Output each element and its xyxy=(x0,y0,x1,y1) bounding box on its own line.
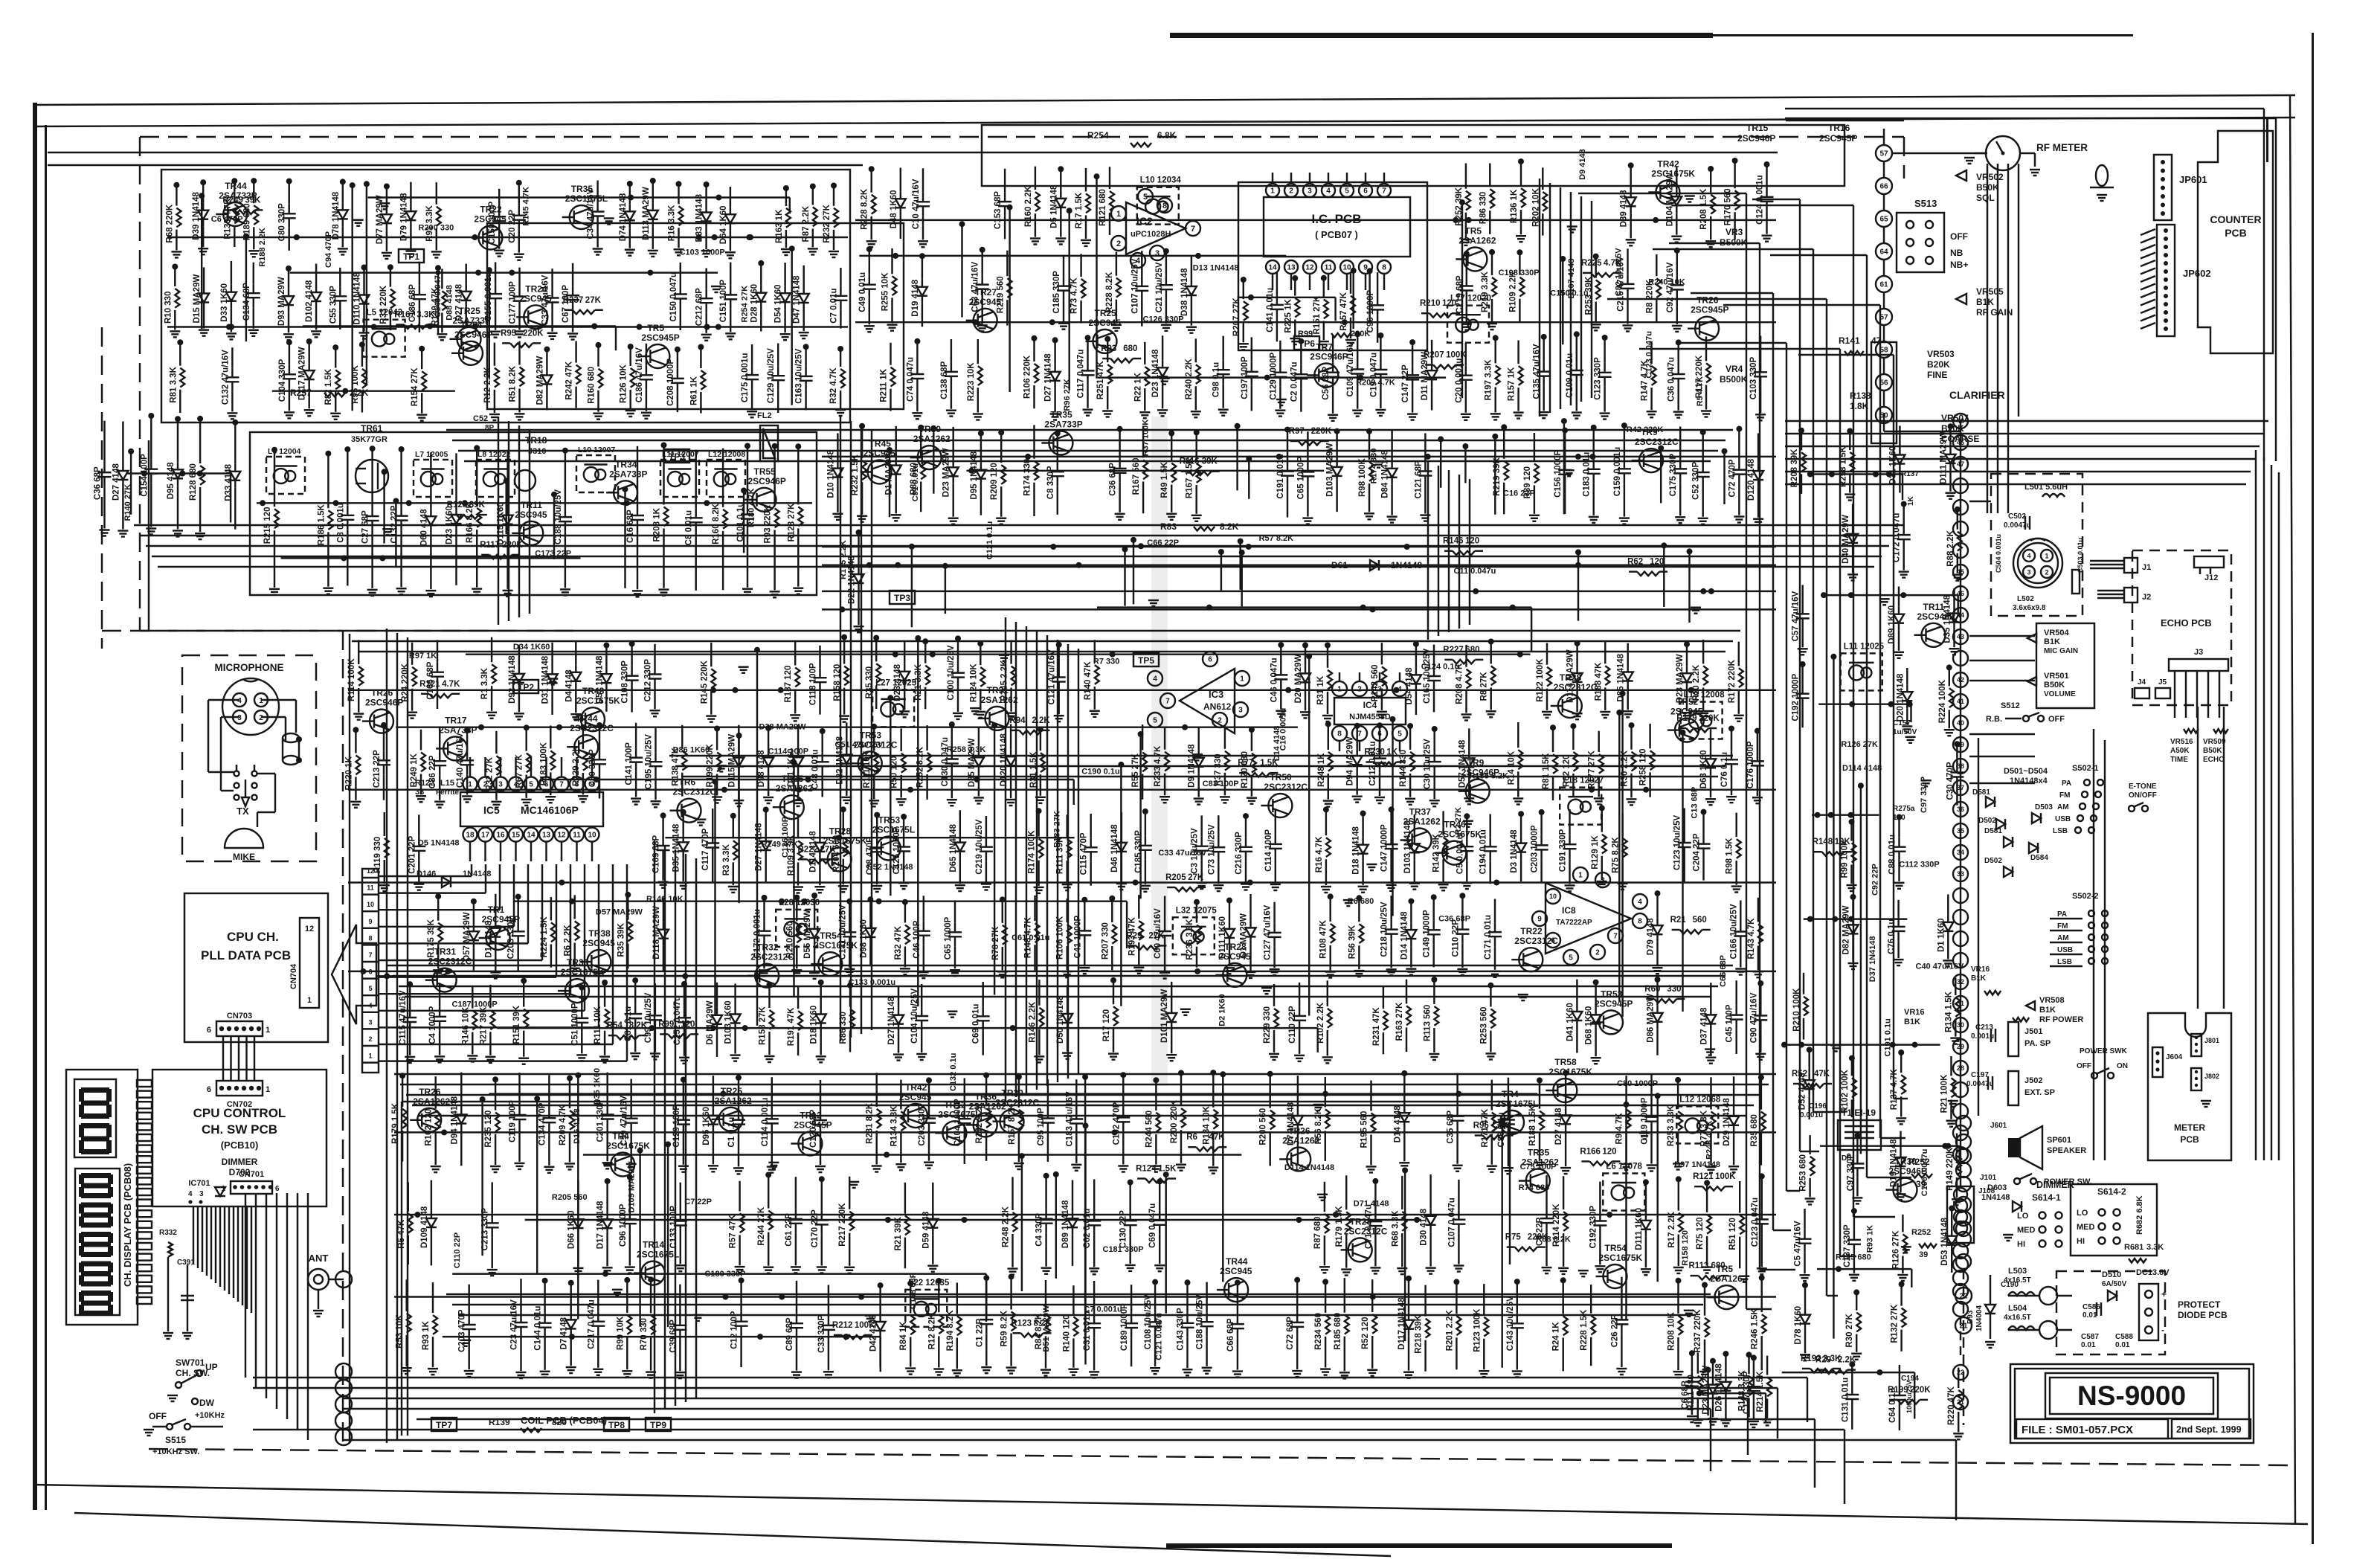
svg-text:D85 1N4148: D85 1N4148 xyxy=(1617,653,1626,701)
svg-text:7: 7 xyxy=(1357,730,1362,739)
svg-text:R17 120: R17 120 xyxy=(1102,1009,1111,1041)
svg-text:2SC945: 2SC945 xyxy=(1089,318,1122,328)
svg-text:VOLUME: VOLUME xyxy=(2044,690,2076,698)
svg-text:C181 330P: C181 330P xyxy=(1103,1245,1144,1254)
svg-text:C195 10u/25V: C195 10u/25V xyxy=(645,734,654,789)
svg-text:TR27: TR27 xyxy=(975,287,997,298)
svg-text:TR54: TR54 xyxy=(1605,1243,1627,1253)
svg-text:C33 330P: C33 330P xyxy=(817,1314,826,1352)
svg-text:8: 8 xyxy=(1638,918,1642,926)
svg-text:B500K: B500K xyxy=(1720,237,1748,248)
svg-text:R17 2.2K: R17 2.2K xyxy=(1667,1211,1676,1247)
svg-text:C72 470P: C72 470P xyxy=(1728,459,1737,497)
svg-text:R126 27K: R126 27K xyxy=(1841,740,1878,749)
svg-text:27K: 27K xyxy=(1188,873,1204,882)
svg-text:D2 1K60: D2 1K60 xyxy=(1218,994,1227,1026)
svg-text:D584: D584 xyxy=(2030,854,2048,862)
svg-text:R179: R179 xyxy=(1676,714,1697,723)
svg-text:R17 1.5K: R17 1.5K xyxy=(1075,192,1084,228)
svg-text:TR15: TR15 xyxy=(1746,123,1769,133)
svg-text:MED: MED xyxy=(2017,1226,2036,1235)
svg-text:R99 10K: R99 10K xyxy=(616,1316,625,1350)
svg-text:CH. DISPLAY PCB (PCB08): CH. DISPLAY PCB (PCB08) xyxy=(122,1163,133,1287)
svg-text:B1K: B1K xyxy=(1976,297,1994,307)
svg-text:C115 47u/16V: C115 47u/16V xyxy=(399,990,408,1045)
svg-text:S614-2: S614-2 xyxy=(2097,1186,2126,1197)
svg-text:C94 470P: C94 470P xyxy=(324,231,333,268)
svg-text:D37 1N4148: D37 1N4148 xyxy=(1868,936,1877,982)
svg-text:R12 8.2K: R12 8.2K xyxy=(927,1313,936,1349)
svg-text:C126 330P: C126 330P xyxy=(1143,315,1184,324)
svg-text:C51 47u/16V: C51 47u/16V xyxy=(835,740,884,749)
svg-text:6.8K: 6.8K xyxy=(1157,130,1177,141)
svg-text:R113 560: R113 560 xyxy=(1423,1005,1432,1041)
svg-text:C134 470P: C134 470P xyxy=(538,1102,547,1145)
svg-text:9: 9 xyxy=(590,781,594,789)
svg-text:MICROPHONE: MICROPHONE xyxy=(214,662,283,673)
svg-text:R50 120: R50 120 xyxy=(890,756,899,788)
svg-text:R93: R93 xyxy=(1101,344,1116,353)
svg-text:3: 3 xyxy=(199,1190,204,1198)
svg-text:C129 100P: C129 100P xyxy=(672,1105,681,1148)
svg-text:2SC946P: 2SC946P xyxy=(748,476,786,486)
svg-text:1N4004: 1N4004 xyxy=(1975,1305,1984,1331)
svg-text:2SC1675K: 2SC1675K xyxy=(1599,1253,1643,1263)
svg-text:C114 100P: C114 100P xyxy=(768,747,808,756)
svg-text:C152 470P: C152 470P xyxy=(1112,1102,1121,1145)
svg-text:R68 3.3K: R68 3.3K xyxy=(1391,1210,1400,1247)
svg-text:D581: D581 xyxy=(1972,788,1990,797)
svg-text:D603: D603 xyxy=(1987,1183,2007,1192)
svg-text:C108 330P: C108 330P xyxy=(621,661,630,704)
svg-text:2SC1675K: 2SC1675K xyxy=(1548,1067,1592,1077)
svg-text:R126 10K: R126 10K xyxy=(620,364,628,403)
svg-text:C133 100P: C133 100P xyxy=(669,1206,678,1249)
svg-text:C82 10u/25V: C82 10u/25V xyxy=(1615,248,1624,296)
svg-text:R207 330: R207 330 xyxy=(1101,922,1110,960)
svg-text:PA: PA xyxy=(2057,910,2067,919)
svg-text:15: 15 xyxy=(512,832,521,840)
svg-text:R106 220K: R106 220K xyxy=(1023,355,1032,399)
svg-text:TA7222AP: TA7222AP xyxy=(1556,919,1592,927)
svg-text:R84 1K: R84 1K xyxy=(899,1321,908,1351)
svg-text:R132 27K: R132 27K xyxy=(1891,1304,1900,1343)
svg-text:8: 8 xyxy=(575,781,579,789)
svg-text:C107 0.047u: C107 0.047u xyxy=(1447,1198,1456,1247)
svg-text:R29: R29 xyxy=(1815,1356,1831,1365)
svg-text:R223 10K: R223 10K xyxy=(967,362,976,401)
svg-text:R113: R113 xyxy=(1689,1262,1709,1270)
svg-text:C185 330P: C185 330P xyxy=(1052,271,1061,314)
svg-text:TP7: TP7 xyxy=(436,1420,452,1430)
svg-text:C8 330P: C8 330P xyxy=(1046,466,1055,499)
svg-text:6A/50V: 6A/50V xyxy=(2102,1280,2127,1288)
svg-text:R143 4.7K: R143 4.7K xyxy=(1747,918,1756,960)
svg-text:D27 4148: D27 4148 xyxy=(112,463,120,501)
svg-text:13: 13 xyxy=(542,832,551,840)
svg-text:C36 68P: C36 68P xyxy=(94,466,103,500)
svg-text:C143 330P: C143 330P xyxy=(1177,1308,1186,1351)
svg-text:8.2K: 8.2K xyxy=(629,1021,648,1030)
svg-text:C61 22P: C61 22P xyxy=(785,1213,794,1247)
svg-text:VR16: VR16 xyxy=(1904,1008,1925,1017)
svg-text:A50K: A50K xyxy=(2170,747,2190,755)
svg-text:USB: USB xyxy=(2055,815,2071,823)
svg-text:220K: 220K xyxy=(1311,427,1332,436)
svg-text:R134 1.5K: R134 1.5K xyxy=(1944,991,1953,1032)
svg-text:2SC2312C: 2SC2312C xyxy=(1264,782,1308,792)
svg-text:R75 8.2K: R75 8.2K xyxy=(1612,837,1621,873)
svg-text:8.2K: 8.2K xyxy=(1220,521,1239,532)
svg-text:C129 10u/25V: C129 10u/25V xyxy=(767,348,776,403)
svg-text:R255 10K: R255 10K xyxy=(881,272,890,311)
svg-text:C2 0.047u: C2 0.047u xyxy=(1290,361,1299,402)
svg-text:D57 MA29W: D57 MA29W xyxy=(596,908,643,917)
svg-text:7: 7 xyxy=(1191,225,1195,234)
svg-text:R240 10K: R240 10K xyxy=(1648,277,1685,286)
svg-text:2.2K: 2.2K xyxy=(1838,1356,1856,1365)
svg-text:EXT. SP: EXT. SP xyxy=(2024,1088,2055,1097)
svg-text:C183 0.01u: C183 0.01u xyxy=(1583,452,1592,497)
svg-text:C212 68P: C212 68P xyxy=(695,288,704,326)
svg-text:3: 3 xyxy=(2027,569,2030,576)
svg-text:VR509: VR509 xyxy=(2203,738,2226,746)
svg-text:R172 220K: R172 220K xyxy=(1728,659,1737,703)
svg-text:C130 22P: C130 22P xyxy=(1119,1210,1128,1248)
svg-text:C7 22P: C7 22P xyxy=(684,1198,712,1206)
svg-text:SPEAKER: SPEAKER xyxy=(2047,1146,2086,1155)
svg-text:TR24: TR24 xyxy=(525,283,547,294)
svg-text:16: 16 xyxy=(496,832,505,840)
svg-text:2SC2312C: 2SC2312C xyxy=(1554,682,1598,692)
svg-text:C170 22P: C170 22P xyxy=(811,1209,820,1247)
svg-text:L12 12068: L12 12068 xyxy=(1679,1095,1721,1104)
svg-text:R154 27K: R154 27K xyxy=(411,367,419,406)
svg-text:R70 330: R70 330 xyxy=(640,1318,649,1350)
svg-text:USB: USB xyxy=(2057,946,2073,954)
svg-text:R179 1.5K: R179 1.5K xyxy=(1335,1206,1344,1247)
svg-text:IC4: IC4 xyxy=(1363,700,1377,710)
svg-text:FILE : SM01-057.PCX: FILE : SM01-057.PCX xyxy=(2022,1424,2133,1436)
svg-text:C218 10u/25V: C218 10u/25V xyxy=(1380,901,1389,957)
svg-text:C587: C587 xyxy=(2081,1333,2099,1341)
svg-text:8P: 8P xyxy=(485,424,495,432)
svg-text:D93 MA29W: D93 MA29W xyxy=(277,277,286,326)
svg-text:D22 1N4148: D22 1N4148 xyxy=(848,556,857,604)
svg-text:B50K: B50K xyxy=(2203,747,2222,755)
svg-text:R211 1K: R211 1K xyxy=(880,368,889,402)
svg-text:R97: R97 xyxy=(1289,427,1305,436)
svg-text:R51 120: R51 120 xyxy=(1728,1218,1737,1250)
svg-text:C159 0.001u: C159 0.001u xyxy=(1613,447,1622,497)
svg-text:LSB: LSB xyxy=(2057,958,2072,966)
svg-text:VR508: VR508 xyxy=(2039,996,2065,1005)
svg-text:R21 39K: R21 39K xyxy=(894,1216,903,1250)
svg-text:PCB: PCB xyxy=(2180,1134,2199,1145)
svg-text:TR44: TR44 xyxy=(576,713,598,724)
svg-text:D16 4148: D16 4148 xyxy=(573,1108,582,1144)
svg-text:IC8: IC8 xyxy=(1562,905,1576,916)
svg-text:J101: J101 xyxy=(1980,1174,1997,1182)
svg-text:L6 12078: L6 12078 xyxy=(1606,1163,1642,1171)
svg-text:2SC1675L: 2SC1675L xyxy=(637,1250,679,1260)
svg-text:L19 12008: L19 12008 xyxy=(1684,691,1725,700)
svg-text:D93: D93 xyxy=(1966,1310,1975,1324)
svg-text:65: 65 xyxy=(1879,216,1888,224)
svg-text:CN701: CN701 xyxy=(239,1170,264,1179)
svg-text:C36 68P: C36 68P xyxy=(1438,915,1470,924)
svg-text:TR5: TR5 xyxy=(1464,226,1482,237)
svg-text:TP8: TP8 xyxy=(608,1420,625,1430)
svg-text:61: 61 xyxy=(1879,281,1888,289)
svg-text:D39 1N4148: D39 1N4148 xyxy=(192,192,201,240)
svg-text:R200 330: R200 330 xyxy=(419,223,454,232)
svg-text:12: 12 xyxy=(305,925,314,933)
svg-text:1.8K: 1.8K xyxy=(1850,401,1869,411)
svg-text:7: 7 xyxy=(1382,187,1386,196)
svg-text:C123 10u/25V: C123 10u/25V xyxy=(1673,815,1682,870)
svg-text:R253 3.3K: R253 3.3K xyxy=(1667,1105,1676,1146)
svg-text:C95 100P: C95 100P xyxy=(1037,1108,1046,1145)
svg-text:C55 330P: C55 330P xyxy=(329,286,338,324)
svg-text:D94 MA29W: D94 MA29W xyxy=(1346,736,1355,785)
svg-text:C88 0.01u: C88 0.01u xyxy=(1888,835,1897,875)
svg-text:3: 3 xyxy=(368,1018,372,1026)
svg-text:3.3K: 3.3K xyxy=(2146,1243,2164,1252)
svg-text:5: 5 xyxy=(1398,730,1402,739)
svg-text:D9 4148: D9 4148 xyxy=(1578,149,1587,180)
svg-text:2: 2 xyxy=(1116,240,1121,248)
svg-text:C213 330P: C213 330P xyxy=(481,1207,490,1250)
svg-text:TR35: TR35 xyxy=(1050,410,1072,420)
svg-text:TR11: TR11 xyxy=(521,500,542,510)
svg-text:OFF: OFF xyxy=(149,1411,167,1421)
svg-text:0.0047u: 0.0047u xyxy=(1966,1080,1994,1088)
svg-text:TR25: TR25 xyxy=(1095,308,1117,318)
svg-text:R5 4.7K: R5 4.7K xyxy=(1696,376,1705,406)
svg-text:1: 1 xyxy=(266,1085,270,1094)
svg-text:100K: 100K xyxy=(1715,1172,1736,1181)
svg-text:D4 4148: D4 4148 xyxy=(565,669,573,702)
svg-text:R93 1K: R93 1K xyxy=(1866,1225,1875,1253)
svg-text:D53 1N4148: D53 1N4148 xyxy=(1940,1218,1949,1266)
svg-text:OFF: OFF xyxy=(1950,231,1968,242)
svg-text:R22 1K: R22 1K xyxy=(1133,372,1142,402)
svg-text:R210: R210 xyxy=(1420,299,1441,308)
svg-text:R167 560: R167 560 xyxy=(1132,458,1141,495)
svg-text:D48 1K60: D48 1K60 xyxy=(890,190,898,229)
svg-text:R16 4.7K: R16 4.7K xyxy=(1315,836,1324,872)
svg-text:R208 10K: R208 10K xyxy=(1667,1311,1676,1350)
svg-text:C1 0.1u: C1 0.1u xyxy=(727,1117,736,1148)
svg-text:C197 100P: C197 100P xyxy=(1241,356,1249,399)
svg-text:R49 1.5K: R49 1.5K xyxy=(1160,461,1169,498)
svg-text:TR53: TR53 xyxy=(860,730,882,740)
svg-text:R251 47K: R251 47K xyxy=(1096,361,1105,399)
svg-text:TR14: TR14 xyxy=(643,1240,665,1250)
svg-text:R124 10K: R124 10K xyxy=(969,663,978,702)
svg-text:R151 27K: R151 27K xyxy=(1313,295,1322,334)
svg-text:7: 7 xyxy=(1165,698,1170,706)
svg-text:D8: D8 xyxy=(1842,1154,1851,1163)
svg-text:C185 330P: C185 330P xyxy=(1134,830,1143,873)
svg-text:27K: 27K xyxy=(1148,931,1165,940)
svg-text:C134 68P: C134 68P xyxy=(242,283,251,321)
svg-text:22: 22 xyxy=(1959,1293,1968,1301)
svg-text:TR22: TR22 xyxy=(480,205,502,215)
svg-text:IC5: IC5 xyxy=(483,804,500,816)
svg-text:B1K: B1K xyxy=(1904,1018,1920,1026)
svg-text:B50K: B50K xyxy=(2044,681,2065,690)
svg-text:D34 1K60: D34 1K60 xyxy=(513,643,550,652)
svg-text:2: 2 xyxy=(1357,686,1362,694)
svg-text:TP3: TP3 xyxy=(894,593,910,603)
svg-text:4x16.5T: 4x16.5T xyxy=(2004,1314,2031,1322)
svg-text:J502: J502 xyxy=(2024,1076,2042,1085)
svg-text:R188 1.5K: R188 1.5K xyxy=(1528,1105,1537,1146)
svg-text:ON/OFF: ON/OFF xyxy=(2129,791,2157,800)
svg-text:4: 4 xyxy=(1153,675,1157,684)
svg-text:100: 100 xyxy=(1893,814,1905,822)
svg-text:D103 1N4148: D103 1N4148 xyxy=(1403,820,1412,874)
svg-text:R95 100K: R95 100K xyxy=(351,364,360,403)
svg-text:3: 3 xyxy=(1601,877,1605,885)
svg-text:R21: R21 xyxy=(1670,916,1687,925)
svg-text:2SA733P: 2SA733P xyxy=(453,315,491,326)
svg-text:L11 12025: L11 12025 xyxy=(1844,642,1885,651)
svg-text:D30 4148: D30 4148 xyxy=(1420,1208,1429,1245)
svg-text:C10 47u/16V: C10 47u/16V xyxy=(912,179,921,229)
svg-text:R208 1.5K: R208 1.5K xyxy=(1699,188,1708,230)
svg-text:R61 1K: R61 1K xyxy=(689,376,698,405)
svg-text:C46 100P: C46 100P xyxy=(913,920,922,958)
svg-text:TR42: TR42 xyxy=(1657,159,1679,170)
svg-text:D510: D510 xyxy=(2102,1270,2121,1279)
svg-text:3: 3 xyxy=(237,714,242,722)
svg-text:R119 330: R119 330 xyxy=(373,837,382,873)
svg-text:D3 1N4148: D3 1N4148 xyxy=(1510,829,1519,873)
svg-text:R2 27K: R2 27K xyxy=(1454,807,1463,835)
svg-text:R682 6.8K: R682 6.8K xyxy=(2135,1195,2144,1235)
svg-text:D120 1N4148: D120 1N4148 xyxy=(1000,733,1009,787)
svg-text:C191 0.1u: C191 0.1u xyxy=(1883,1018,1892,1056)
svg-text:D114 1N4148: D114 1N4148 xyxy=(1284,1163,1334,1172)
svg-text:14: 14 xyxy=(1268,264,1277,272)
svg-text:D102 4148: D102 4148 xyxy=(305,280,314,322)
svg-text:C98 0.1u: C98 0.1u xyxy=(1212,362,1221,397)
svg-text:10: 10 xyxy=(1342,264,1351,272)
svg-text:R128 680: R128 680 xyxy=(189,463,198,501)
svg-text:R209 4.7K: R209 4.7K xyxy=(1356,378,1395,387)
svg-text:6: 6 xyxy=(1208,656,1212,664)
svg-text:4: 4 xyxy=(1136,257,1141,266)
svg-text:2nd Sept. 1999: 2nd Sept. 1999 xyxy=(2176,1424,2242,1435)
svg-text:5: 5 xyxy=(1143,193,1148,202)
svg-text:4: 4 xyxy=(368,1002,372,1009)
svg-text:D57 MA29W: D57 MA29W xyxy=(463,912,472,961)
svg-text:J801: J801 xyxy=(2204,1037,2219,1044)
svg-text:D89 1K60: D89 1K60 xyxy=(1888,605,1897,644)
svg-text:R83: R83 xyxy=(1160,521,1177,532)
svg-text:D146: D146 xyxy=(416,870,436,878)
svg-text:COIL PCB (PCB04): COIL PCB (PCB04) xyxy=(521,1415,607,1426)
svg-text:TR28: TR28 xyxy=(1350,1216,1372,1227)
svg-text:R96 27K: R96 27K xyxy=(1063,379,1072,411)
svg-text:C8 0.01u: C8 0.01u xyxy=(685,510,694,545)
svg-text:C1 22P: C1 22P xyxy=(975,1318,984,1347)
svg-text:6: 6 xyxy=(1551,937,1555,945)
svg-text:JP602: JP602 xyxy=(2183,268,2211,279)
svg-text:TP2: TP2 xyxy=(518,682,534,692)
svg-text:C119 100P: C119 100P xyxy=(509,1100,518,1142)
svg-text:R207: R207 xyxy=(1424,351,1444,360)
svg-text:1K: 1K xyxy=(1907,495,1915,506)
svg-text:R99: R99 xyxy=(1298,330,1313,338)
svg-text:C8 0.001u: C8 0.001u xyxy=(336,503,345,543)
svg-text:TR37: TR37 xyxy=(1409,807,1432,817)
svg-text:R126 27K: R126 27K xyxy=(1891,1230,1900,1269)
svg-text:J12: J12 xyxy=(2204,573,2218,582)
svg-text:D115 MA29W: D115 MA29W xyxy=(727,734,736,788)
svg-text:R134 3.3K: R134 3.3K xyxy=(890,1105,898,1147)
svg-text:3: 3 xyxy=(1308,187,1312,196)
svg-text:D35 1N4148: D35 1N4148 xyxy=(672,823,681,872)
svg-text:VR504: VR504 xyxy=(2044,629,2070,637)
svg-text:VR3: VR3 xyxy=(1725,227,1743,237)
svg-text:R229 330: R229 330 xyxy=(1263,1006,1272,1044)
svg-text:FM: FM xyxy=(2059,791,2070,800)
svg-text:D109 MA29W: D109 MA29W xyxy=(627,1161,636,1213)
svg-text:1: 1 xyxy=(368,1052,372,1060)
svg-text:R220 1K: R220 1K xyxy=(344,756,353,790)
svg-text:C191 330P: C191 330P xyxy=(1559,829,1568,872)
svg-text:6: 6 xyxy=(275,1185,280,1193)
svg-text:C66 68P: C66 68P xyxy=(1226,1318,1235,1352)
svg-text:C100 10u/25V: C100 10u/25V xyxy=(947,645,956,700)
svg-text:AN612: AN612 xyxy=(1203,701,1232,712)
svg-text:R129 1K: R129 1K xyxy=(1591,835,1600,870)
svg-text:R121: R121 xyxy=(1693,1172,1714,1181)
svg-text:120: 120 xyxy=(1602,1147,1616,1156)
svg-text:C166 10u/25V: C166 10u/25V xyxy=(1729,904,1738,959)
svg-text:C4 1000P: C4 1000P xyxy=(428,1006,437,1044)
svg-text:D23 MA29W: D23 MA29W xyxy=(942,448,951,497)
svg-text:C110 22P: C110 22P xyxy=(1288,1006,1297,1044)
svg-text:2SC946P: 2SC946P xyxy=(1737,133,1775,144)
svg-text:L27 12025: L27 12025 xyxy=(875,678,917,687)
svg-text:C169 68P: C169 68P xyxy=(652,835,661,873)
svg-text:C126 100P: C126 100P xyxy=(781,817,790,858)
svg-text:J4: J4 xyxy=(2138,678,2146,687)
svg-text:R275a: R275a xyxy=(1893,805,1915,813)
svg-text:R6: R6 xyxy=(1186,1133,1197,1142)
svg-text:TR61: TR61 xyxy=(361,423,383,434)
svg-text:C188 10u/25V: C188 10u/25V xyxy=(1196,1294,1205,1349)
svg-text:R225 1K: R225 1K xyxy=(1284,299,1293,333)
svg-text:D33 1N4148: D33 1N4148 xyxy=(695,193,704,242)
svg-text:TR31: TR31 xyxy=(434,947,457,957)
svg-text:TIME: TIME xyxy=(2170,756,2188,764)
svg-text:C49 0.01u: C49 0.01u xyxy=(858,272,867,312)
svg-text:1: 1 xyxy=(1116,210,1121,219)
svg-text:R205: R205 xyxy=(1165,873,1186,882)
svg-text:4: 4 xyxy=(1638,899,1642,907)
svg-text:D47 1N4148: D47 1N4148 xyxy=(793,275,802,324)
svg-text:C69 0.047u: C69 0.047u xyxy=(1148,1203,1157,1248)
svg-text:C127 330P: C127 330P xyxy=(1743,1371,1752,1414)
svg-text:R180 4.7K: R180 4.7K xyxy=(747,488,756,527)
svg-text:8: 8 xyxy=(1337,730,1342,739)
